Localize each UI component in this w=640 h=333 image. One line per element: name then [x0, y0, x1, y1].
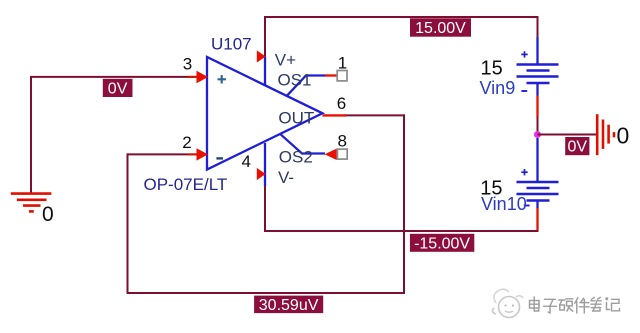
pin 3 red tail: [188, 76, 198, 78]
svg-text:4: 4: [242, 152, 251, 171]
char 子: [545, 298, 556, 300]
Vin10 bottom pin (red): [536, 208, 538, 230]
ground 0 (left earth ground): [11, 194, 52, 212]
terminal square pin 1: [337, 71, 347, 81]
pin 2 red tail: [188, 153, 198, 155]
Vin10 plus mark: [521, 169, 527, 175]
op-amp inverting input marker -: [216, 157, 223, 159]
svg-text:8: 8: [338, 131, 347, 150]
svg-text:0: 0: [42, 203, 54, 226]
Vin9 minus mark: [521, 90, 527, 92]
junction node (magenta dot): [534, 131, 541, 138]
svg-text:15: 15: [481, 58, 503, 80]
svg-text:30.59uV: 30.59uV: [259, 297, 319, 314]
pin 2 arrow: [197, 148, 209, 160]
pin OUT red stub: [323, 114, 347, 116]
ground 0 (right earth ground, rotated): [597, 114, 614, 155]
wire: V+ vertical drop to op-amp: [264, 16, 266, 57]
wire: V- vertical below op-amp: [264, 185, 266, 232]
svg-text:3: 3: [183, 54, 192, 73]
wire: feedback bottom horizontal: [127, 292, 406, 294]
pin OS2 stub (blue diagonal + horizontal): [280, 134, 325, 154]
Vin9 bottom pin (red): [536, 96, 538, 118]
svg-text:-15.00V: -15.00V: [414, 235, 470, 252]
char 笔: [592, 297, 601, 299]
wire: horizontal to op-amp pin 3: [30, 76, 198, 78]
pin Vin9 top stub (blue): [536, 37, 538, 65]
bias label 30.59uV: [254, 296, 323, 314]
pin OS2 arrow (points left): [325, 149, 337, 160]
watermark logo (gray sketch): [492, 289, 523, 317]
pin V+ stub (blue): [264, 57, 266, 86]
Vin9 bottom stub (blue): [536, 83, 538, 96]
wire: top horizontal V+ rail: [265, 16, 539, 18]
watermark text 电子硬件笔记 (approximated strokes): [530, 297, 620, 313]
pin 3 arrow: [197, 71, 209, 83]
wire: junction to right ground: [538, 134, 597, 136]
pin Vin10 top stub (blue): [536, 138, 538, 182]
svg-text:OS1: OS1: [278, 70, 312, 89]
wire: feedback left vertical: [127, 153, 129, 294]
op-amp non-inverting input marker +: [218, 75, 226, 83]
bias label 15.00V: [410, 18, 471, 37]
svg-text:V+: V+: [275, 51, 296, 70]
svg-text:6: 6: [337, 94, 346, 113]
pin OS1 red stub to terminal 1: [325, 74, 338, 76]
wire: Vin9 to junction: [537, 117, 539, 135]
svg-text:OP-07E/LT: OP-07E/LT: [144, 175, 228, 194]
terminal square pin 8: [337, 149, 347, 159]
bias label -15.00V: [410, 234, 474, 253]
svg-text:OUT: OUT: [278, 109, 314, 128]
char 硬: [559, 299, 565, 301]
svg-text:U107: U107: [211, 34, 252, 53]
svg-text:OS2: OS2: [279, 148, 313, 167]
wire: left vertical from node to ground: [30, 77, 32, 193]
Vin10 plates: [517, 182, 559, 201]
svg-text:Vin10: Vin10: [481, 194, 527, 214]
pin V- arrow: [257, 168, 266, 180]
wire: V- horizontal to Vin10: [264, 230, 539, 232]
wire: vertical into Vin9: [537, 16, 539, 38]
svg-text:15.00V: 15.00V: [415, 20, 466, 37]
svg-text:0V: 0V: [108, 80, 128, 97]
char 电: [530, 301, 540, 309]
pin V+ arrow: [257, 50, 266, 62]
Vin9 plates: [517, 65, 559, 84]
wire: pin 2 horizontal: [128, 153, 198, 155]
svg-text:2: 2: [182, 133, 191, 152]
char 记: [606, 298, 608, 300]
Vin9 plus mark: [521, 51, 527, 57]
battery Vin10: [517, 138, 559, 230]
pin V- stub (blue): [264, 143, 266, 186]
bias label 0V (right): [565, 137, 589, 156]
pin OS1 stub (blue diagonal + horizontal): [287, 76, 326, 97]
svg-text:1: 1: [338, 54, 347, 73]
svg-text:0V: 0V: [568, 139, 588, 156]
Vin10 minus mark: [524, 205, 530, 207]
wire: feedback right vertical: [403, 114, 405, 294]
Vin10 bottom stub (blue): [536, 201, 538, 209]
op-amp U107 triangle body: [207, 57, 323, 170]
bias label 0V (left): [103, 79, 133, 98]
char 件: [575, 298, 578, 303]
svg-text:V-: V-: [278, 168, 294, 187]
battery Vin9: [517, 37, 559, 118]
svg-text:0: 0: [617, 122, 630, 148]
svg-text:Vin9: Vin9: [480, 78, 516, 98]
wire: output horizontal: [344, 114, 405, 116]
